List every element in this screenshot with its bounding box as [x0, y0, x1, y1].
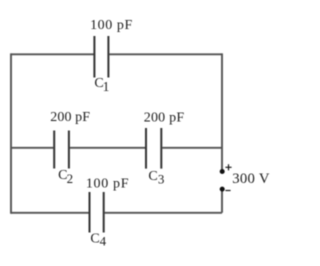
svg-text:100 pF: 100 pF [90, 18, 132, 33]
svg-text:200 pF: 200 pF [50, 110, 90, 125]
svg-text:1: 1 [103, 79, 110, 94]
svg-text:2: 2 [67, 171, 74, 186]
svg-text:C: C [148, 169, 157, 184]
svg-text:100 pF: 100 pF [86, 176, 129, 191]
svg-text:4: 4 [100, 233, 107, 248]
svg-text:200 pF: 200 pF [144, 111, 185, 126]
svg-text:3: 3 [158, 171, 165, 186]
svg-text:300 V: 300 V [232, 171, 270, 187]
svg-text:C: C [90, 231, 99, 246]
